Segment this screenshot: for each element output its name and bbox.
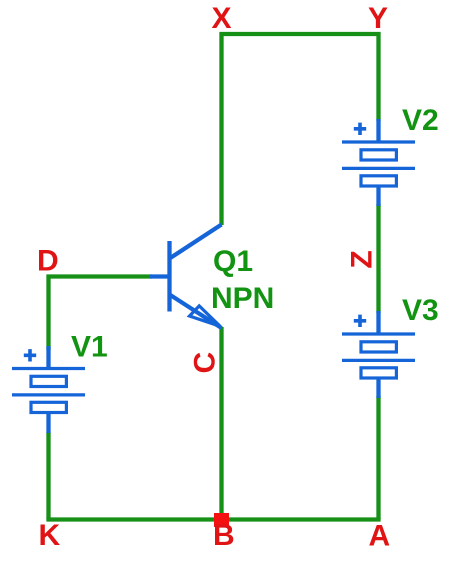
plate [342, 167, 415, 170]
node junction B square [214, 513, 229, 527]
svg-text:V1: V1 [71, 331, 108, 364]
svg-text:X: X [212, 2, 232, 35]
wire: right vertical between V2 and V3 [376, 204, 380, 313]
plus sign [354, 123, 366, 135]
wire: top loop X to Y and verticals [222, 34, 379, 225]
collector diagonal [170, 225, 222, 259]
transistor Q1 [150, 225, 222, 329]
base lead [150, 274, 170, 278]
cell rect [361, 150, 396, 160]
emitter diagonal [170, 295, 222, 329]
battery V2 [342, 119, 415, 206]
svg-text:A: A [369, 520, 391, 553]
wire: bottom horizontal K to A [46, 517, 380, 521]
svg-text:B: B [213, 519, 235, 552]
emitter arrow [190, 306, 221, 326]
svg-text:V3: V3 [402, 294, 439, 327]
wire: left vertical below V1 to K [46, 432, 50, 520]
battery V1 [12, 346, 85, 433]
wire: emitter net C down to B [219, 327, 223, 520]
battery V3 [342, 311, 415, 398]
base bar [167, 241, 171, 312]
wire: right vertical below V3 to A [376, 396, 380, 520]
svg-text:Y: Y [368, 2, 388, 35]
wire: left vertical D corner + base wire [49, 277, 153, 351]
svg-text:NPN: NPN [211, 282, 274, 315]
plate [342, 140, 415, 143]
svg-text:Z: Z [346, 250, 379, 268]
svg-text:C: C [189, 352, 222, 374]
cell rect [361, 176, 396, 186]
svg-text:Q1: Q1 [213, 245, 253, 278]
svg-text:K: K [39, 519, 61, 552]
svg-text:V2: V2 [402, 104, 439, 137]
svg-text:D: D [37, 245, 59, 278]
